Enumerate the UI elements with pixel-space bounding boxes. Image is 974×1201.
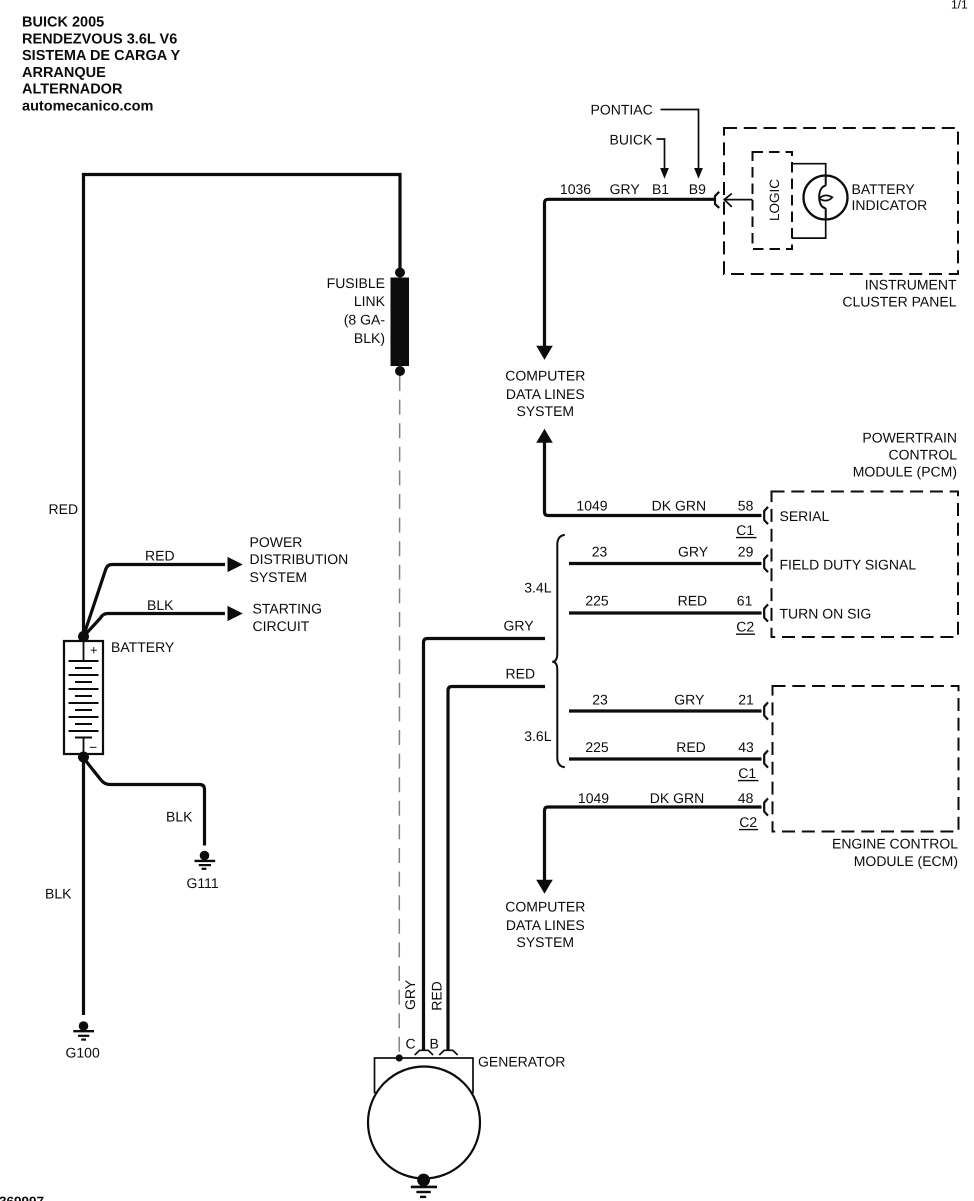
svg-text:C: C [406,1036,416,1052]
svg-text:G111: G111 [187,875,219,891]
svg-text:ALTERNADOR: ALTERNADOR [22,82,123,98]
label COMPUTER DATA LINES SYSTEM (top) [505,368,585,420]
svg-text:CIRCUIT: CIRCUIT [253,618,310,634]
wire 23 GRY 29 [569,562,762,565]
svg-text:FUSIBLE: FUSIBLE [327,275,385,291]
svg-text:LOGIC: LOGIC [767,179,782,221]
wire labels 1049 DK GRN 58 [576,498,753,514]
node fusible link bottom [395,366,405,376]
svg-text:BLK: BLK [45,886,72,902]
label C1 PCM [736,522,757,538]
label COMPUTER DATA LINES SYSTEM (bottom) [505,898,585,950]
wire 23 GRY 21 [569,709,762,712]
connector pin 58 [764,507,768,524]
svg-text:SYSTEM: SYSTEM [517,934,575,950]
svg-text:GRY: GRY [610,181,641,197]
arrow B9 [694,168,703,179]
powertrain control module box [772,492,959,638]
label C1 ECM [738,765,759,781]
node battery negative [78,752,89,763]
svg-text:RENDEZVOUS 3.6L V6: RENDEZVOUS 3.6L V6 [22,31,177,47]
wire 225 RED 43 [569,757,762,760]
wire lamp bottom to logic [792,219,826,238]
ground G111 [187,851,219,891]
wire labels 23 GRY 21 [592,691,754,707]
svg-text:61: 61 [737,593,753,609]
svg-text:DATA LINES: DATA LINES [506,386,585,402]
svg-text:43: 43 [738,739,754,755]
svg-text:SERIAL: SERIAL [780,508,830,524]
svg-text:COMPUTER: COMPUTER [505,898,585,914]
svg-text:21: 21 [738,691,754,707]
label C2 PCM [736,619,755,635]
svg-text:B1: B1 [652,181,669,197]
svg-text:1049: 1049 [576,498,607,514]
svg-text:DATA LINES: DATA LINES [506,917,585,933]
svg-text:TURN ON SIG: TURN ON SIG [780,605,872,621]
svg-text:3.6L: 3.6L [524,728,551,744]
svg-text:CLUSTER PANEL: CLUSTER PANEL [842,293,956,309]
connector at instrument cluster [715,192,753,208]
svg-text:ENGINE CONTROL: ENGINE CONTROL [832,835,958,851]
connector pin 48 [764,798,768,815]
wire RED from generator B [448,687,545,1050]
engine control module box [773,686,959,832]
label INSTRUMENT CLUSTER PANEL [842,277,957,310]
fusible link body [391,278,410,367]
wire 1036 GRY to instrument cluster [545,199,715,346]
svg-text:INSTRUMENT: INSTRUMENT [865,277,957,293]
svg-text:48: 48 [738,790,754,806]
svg-text:DK GRN: DK GRN [650,790,704,806]
svg-text:RED: RED [145,548,175,564]
svg-text:CONTROL: CONTROL [889,447,958,463]
wire PONTIAC to B9 [661,110,699,169]
wire labels 1036 GRY B1 B9 [560,181,706,197]
svg-text:B: B [430,1036,439,1052]
svg-text:ARRANQUE: ARRANQUE [22,65,106,81]
svg-text:225: 225 [585,593,609,609]
svg-text:BUICK 2005: BUICK 2005 [22,15,104,31]
connector pin 29 [764,555,768,572]
svg-text:POWERTRAIN: POWERTRAIN [862,429,957,445]
fusible link label [327,275,386,346]
label C2 ECM [739,814,758,830]
wire labels 1049 DK GRN 48 [578,790,754,806]
wire 1049 DK GRN 48 [545,807,762,881]
node battery positive [78,631,89,642]
svg-text:BLK: BLK [147,597,174,613]
svg-text:MODULE (PCM): MODULE (PCM) [853,464,957,480]
brace 3.4L / 3.6L [552,535,565,767]
svg-text:GRY: GRY [678,544,709,560]
connector pin 43 [764,750,768,767]
svg-text:BLK): BLK) [354,330,385,346]
svg-text:SYSTEM: SYSTEM [250,569,308,585]
wire battery negative to G100 [82,757,85,1015]
svg-text:automecanico.com: automecanico.com [22,99,153,115]
svg-text:POWER: POWER [250,534,303,550]
label STARTING CIRCUIT [253,601,323,634]
svg-text:B9: B9 [689,181,706,197]
svg-text:BUICK: BUICK [610,131,653,147]
node dashed wire at generator [396,1054,403,1061]
svg-text:GRY: GRY [402,979,418,1010]
dashed wire fusible link to generator [398,376,401,1054]
wire labels 225 RED 43 [585,739,754,755]
svg-text:C1: C1 [738,765,756,781]
svg-text:3.4L: 3.4L [524,579,551,595]
label ENGINE CONTROL MODULE (ECM) [832,835,958,869]
svg-text:RED: RED [678,593,708,609]
generator body circle [368,1067,480,1179]
svg-text:GRY: GRY [674,691,705,707]
svg-text:G100: G100 [66,1045,100,1061]
node fusible link top [395,268,405,278]
battery B1 [64,641,103,755]
wire battery positive feed [84,175,401,637]
wire 1049 DK GRN 58 [545,442,762,516]
svg-text:23: 23 [592,544,608,560]
svg-text:RED: RED [49,501,79,517]
svg-text:GRY: GRY [504,618,535,634]
wire RED to power distribution [84,565,226,637]
arrow to computer data lines (top) [536,346,553,360]
arrow B1 [660,168,669,179]
svg-text:RED: RED [506,666,536,682]
svg-text:DISTRIBUTION: DISTRIBUTION [250,551,349,567]
ground G100 [66,1021,100,1060]
instrument cluster panel box [724,128,958,274]
svg-text:RED: RED [429,981,445,1011]
svg-text:MODULE (ECM): MODULE (ECM) [854,853,958,869]
arrow to computer data lines (bottom) [536,880,553,894]
svg-text:RED: RED [676,739,706,755]
ground generator [411,1187,437,1197]
label POWERTRAIN CONTROL MODULE (PCM) [853,429,957,479]
svg-text:SYSTEM: SYSTEM [517,403,575,419]
svg-text:PONTIAC: PONTIAC [591,101,653,117]
wire 225 RED 61 [569,611,762,614]
svg-text:BLK: BLK [166,809,193,825]
logic box [753,152,793,249]
generator box [375,1058,474,1093]
label POWER DISTRIBUTION SYSTEM [250,534,349,585]
svg-text:SISTEMA DE CARGA Y: SISTEMA DE CARGA Y [22,48,181,64]
svg-text:225: 225 [585,739,609,755]
svg-text:29: 29 [738,544,754,560]
wire logic to lamp top [792,164,826,176]
svg-text:FIELD DUTY SIGNAL: FIELD DUTY SIGNAL [780,556,917,572]
node generator ground [417,1174,430,1187]
label BATTERY INDICATOR [852,181,928,213]
svg-text:58: 58 [738,498,754,514]
connector pin 61 [764,604,768,621]
svg-text:INDICATOR: INDICATOR [852,197,928,213]
svg-text:DK GRN: DK GRN [652,498,706,514]
svg-text:COMPUTER: COMPUTER [505,368,585,384]
svg-text:1049: 1049 [578,790,609,806]
wire labels 225 RED 61 [585,593,752,609]
svg-text:1/1: 1/1 [951,0,968,12]
connector hat pin C [415,1050,433,1055]
svg-text:LINK: LINK [354,293,386,309]
connector pin 21 [764,702,768,719]
svg-text:−: − [89,739,97,755]
wire GRY from generator C [424,639,546,1050]
wire BUICK to B1 [657,139,665,169]
connector hat pin B [439,1050,457,1055]
arrow to starting circuit [228,606,243,621]
svg-text:+: + [90,643,98,658]
title block [22,15,181,115]
svg-text:369997: 369997 [0,1194,44,1201]
battery indicator lamp [804,176,848,220]
arrow from computer data lines to serial wire [536,429,553,443]
svg-text:STARTING: STARTING [253,601,323,617]
svg-text:BATTERY: BATTERY [852,181,916,197]
wire BLK to starting circuit [84,614,226,637]
svg-text:BATTERY: BATTERY [111,639,175,655]
svg-text:C2: C2 [739,814,757,830]
svg-text:C2: C2 [736,619,754,635]
arrow to power distribution system [228,557,243,572]
svg-text:(8 GA-: (8 GA- [344,312,386,328]
svg-text:23: 23 [592,691,608,707]
svg-text:C1: C1 [736,522,754,538]
svg-text:GENERATOR: GENERATOR [478,1054,565,1070]
wire labels 23 GRY 29 [592,544,754,560]
wire battery negative to G111 [84,758,205,846]
svg-text:1036: 1036 [560,181,591,197]
